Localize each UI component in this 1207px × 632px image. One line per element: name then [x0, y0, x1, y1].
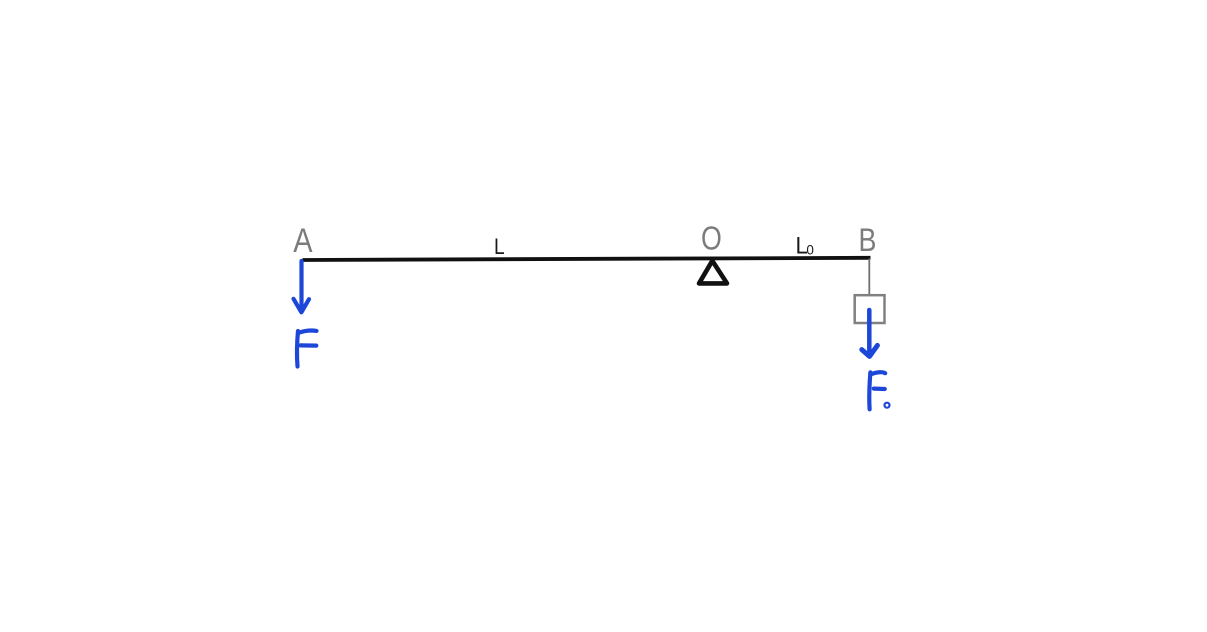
svg-text:O: O: [701, 221, 722, 257]
svg-text:0: 0: [806, 242, 814, 257]
svg-text:A: A: [293, 221, 312, 260]
force arrow F at A: [294, 261, 310, 312]
svg-text:B: B: [859, 223, 877, 259]
string from B to weight: [868, 259, 870, 297]
fulcrum triangle at O: [699, 261, 727, 284]
lever beam A-B: [303, 258, 871, 260]
force label F0: [869, 372, 889, 409]
weight box at B: [855, 295, 885, 323]
force label F: [297, 331, 316, 367]
svg-text:L: L: [494, 235, 505, 260]
force arrow F0 at B: [862, 310, 878, 356]
